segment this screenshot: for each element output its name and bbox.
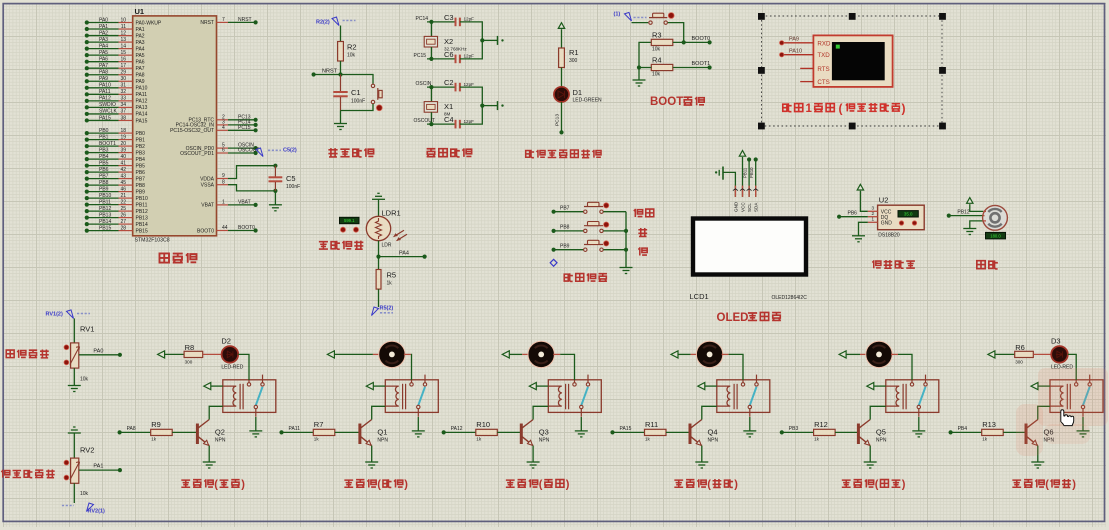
wire SDA pin OLED — [754, 157, 758, 161]
svg-text:PA10: PA10 — [789, 49, 802, 55]
svg-text:PB5: PB5 — [136, 163, 146, 169]
power arrow (left) motor row 4 — [671, 351, 678, 358]
svg-text:PA11: PA11 — [289, 426, 301, 432]
svg-text:33: 33 — [120, 96, 126, 102]
svg-text:U2: U2 — [879, 196, 889, 205]
wire net PB9 — [552, 248, 556, 252]
svg-text:OLED: OLED — [717, 312, 749, 324]
svg-text:PA2: PA2 — [99, 30, 108, 36]
push button PB7 — [584, 210, 587, 213]
svg-text:PA9: PA9 — [99, 76, 108, 82]
svg-text:10k: 10k — [652, 72, 661, 78]
wire net PA11 to R7 — [282, 431, 314, 433]
svg-text:PA5: PA5 — [99, 50, 108, 56]
wire D3 to relay pin — [1068, 354, 1076, 380]
svg-text:LDR: LDR — [382, 243, 392, 249]
svg-text:PB2: PB2 — [136, 144, 146, 150]
wire motor to relay pin 2 — [404, 353, 411, 355]
LCD1 OLED module body — [693, 219, 806, 275]
svg-text:RV1: RV1 — [80, 325, 94, 334]
svg-text:PB11: PB11 — [136, 202, 148, 208]
node BOOT0 junction — [682, 40, 686, 44]
wire net PA3 to U1 pin 13 — [87, 41, 119, 43]
wire button to BOOT0 node — [668, 23, 684, 43]
transistor Q1 NPN — [358, 424, 361, 445]
relay component unit 2 — [385, 380, 438, 413]
svg-text:R10: R10 — [476, 420, 490, 429]
resistor R13 1k — [982, 429, 1004, 435]
relay component unit 4 — [717, 380, 770, 413]
svg-text:R5: R5 — [387, 271, 397, 280]
power arrow servo — [967, 198, 973, 204]
wire C3 to right rail — [460, 22, 482, 41]
svg-text:Q5: Q5 — [876, 428, 886, 437]
wire left rail to R3 — [639, 42, 651, 67]
svg-text:PB11: PB11 — [743, 167, 748, 178]
wire servo VCC — [970, 204, 984, 211]
svg-text:OSCOUT_PD1: OSCOUT_PD1 — [180, 151, 214, 157]
wire net PA8 to U1 pin 29 — [87, 74, 119, 76]
svg-text:(: ( — [1045, 479, 1049, 491]
svg-text:LCD1: LCD1 — [690, 292, 709, 301]
svg-text:PB11: PB11 — [99, 199, 111, 205]
svg-text:R8: R8 — [185, 343, 195, 352]
svg-text:RV1(2): RV1(2) — [46, 312, 63, 318]
svg-text:U1: U1 — [135, 7, 145, 16]
svg-text:NPN: NPN — [876, 438, 887, 444]
servo angle display — [986, 232, 1006, 239]
capacitor C5 100nF — [274, 166, 276, 177]
svg-text:NRST: NRST — [238, 17, 252, 23]
capacitor C2 12pF — [455, 83, 457, 92]
power arrow (left) at relay 5 — [867, 383, 874, 390]
wire RV1 bottom to ground — [73, 368, 75, 385]
node PA15 wire start — [610, 430, 614, 434]
motor load unit 2 — [379, 341, 405, 367]
wire Q4 emitter to ground — [701, 446, 703, 462]
svg-text:25: 25 — [120, 206, 126, 212]
svg-text:SCL: SCL — [747, 203, 752, 212]
wire net PA8 to R9 — [120, 431, 151, 433]
svg-text:PA9: PA9 — [789, 37, 799, 43]
svg-text:VSSA: VSSA — [201, 183, 215, 189]
push button BOOT (horizontal) — [649, 21, 652, 24]
wire rail to ground stub — [482, 39, 497, 41]
node PA4 junction — [376, 255, 380, 259]
resistor R8 300 — [184, 351, 203, 357]
relay component unit 5 — [886, 380, 939, 413]
svg-text:GND: GND — [881, 221, 893, 227]
caption relay unit 3 — [506, 479, 538, 487]
wire relay switch to ground — [580, 417, 582, 431]
svg-text:30: 30 — [120, 76, 126, 82]
svg-text:PB6: PB6 — [136, 170, 146, 176]
brightness control display 599.1 — [340, 217, 360, 223]
svg-text:PA12: PA12 — [451, 426, 463, 432]
wire net PC15 from U1 pin 4 — [217, 129, 229, 131]
svg-text:SDA: SDA — [754, 202, 759, 212]
ground DS18B20 — [852, 235, 865, 237]
crystal X2 32.768KHz — [430, 22, 432, 37]
node OSCIN junction — [429, 85, 433, 89]
svg-text:PA6: PA6 — [136, 59, 145, 65]
wire net SWDIO to U1 pin 34 — [87, 106, 119, 108]
wire relay switch to ground — [417, 417, 419, 431]
wire motor to relay pin 3 — [553, 353, 560, 355]
wire NRST horizontal — [314, 75, 373, 84]
svg-text:PC15: PC15 — [414, 53, 427, 59]
node PA11 wire start — [279, 430, 283, 434]
wire VCC DS18B20 — [860, 191, 867, 212]
svg-text:8: 8 — [222, 179, 225, 185]
svg-text:PB7: PB7 — [99, 173, 109, 179]
resistor R3 10k — [651, 39, 673, 45]
wire net PC14 from U1 pin 3 — [217, 124, 229, 126]
svg-text:PB13: PB13 — [136, 215, 148, 221]
wire RV2 top — [73, 433, 75, 458]
ground (side) OLED GND — [722, 167, 724, 180]
svg-text:PC13: PC13 — [555, 114, 561, 126]
virtual terminal screen — [832, 42, 885, 80]
svg-text:PA12: PA12 — [99, 96, 111, 102]
svg-text:7: 7 — [222, 17, 225, 23]
hover highlight on relay unit 6 — [1038, 368, 1108, 426]
node NRST junction — [338, 72, 342, 76]
svg-text:BOOT0: BOOT0 — [692, 36, 711, 42]
wire gnd to LDR1 — [378, 199, 380, 216]
wire net PB7 to U1 pin 43 — [87, 178, 119, 180]
wire R5 to off-page — [378, 289, 380, 307]
svg-text:): ) — [1072, 479, 1076, 491]
wire Q3 emitter to ground — [532, 446, 534, 462]
terminal cursor green block — [836, 45, 840, 49]
svg-text:NPN: NPN — [708, 438, 719, 444]
ground (inverted) above LDR1 — [372, 198, 385, 200]
svg-text:4: 4 — [222, 125, 225, 131]
svg-text:C5: C5 — [286, 174, 296, 183]
wire Q5 emitter to ground — [869, 446, 871, 462]
svg-text:R6: R6 — [1015, 343, 1025, 352]
wire net PA0 to U1 pin 10 — [87, 22, 119, 24]
wire net PB0 to U1 pin 18 — [87, 132, 119, 134]
svg-text:1k: 1k — [151, 437, 157, 442]
wire RV2 wiper to PA1 — [79, 469, 120, 471]
svg-text:PA15: PA15 — [620, 426, 632, 432]
svg-text:PA11: PA11 — [99, 89, 111, 95]
svg-text:2: 2 — [872, 211, 875, 216]
resistor R9 1k — [151, 429, 173, 435]
wire net PB11 to U1 pin 22 — [87, 204, 119, 206]
svg-text:PA4: PA4 — [399, 250, 409, 256]
wire R11 to Q4 base — [666, 431, 690, 433]
wire Q1 emitter to ground — [371, 446, 373, 462]
svg-text:PA4: PA4 — [136, 46, 145, 52]
svg-text:Q4: Q4 — [708, 428, 718, 437]
svg-text:31: 31 — [120, 83, 126, 89]
transistor Q2 NPN — [196, 424, 199, 445]
svg-text:300: 300 — [1015, 360, 1023, 365]
U1 pin 9 VDDA — [217, 178, 229, 180]
svg-text:PC14: PC14 — [416, 16, 429, 22]
relay component unit 6 — [1050, 380, 1103, 413]
wire net PA4 to U1 pin 14 — [87, 48, 119, 50]
svg-text:PA4: PA4 — [99, 43, 108, 49]
capacitor C1 100nF — [340, 75, 342, 92]
power arrow (left) at relay 4 — [698, 383, 705, 390]
wire net PA15 to U1 pin 38 — [87, 119, 119, 121]
svg-text:OSCOUT: OSCOUT — [238, 148, 259, 154]
svg-text:300: 300 — [185, 360, 193, 365]
svg-text:): ) — [241, 479, 245, 491]
wire RV2 bottom to off-page — [73, 483, 75, 503]
wire net PB8 — [552, 229, 556, 233]
svg-text:(: ( — [377, 479, 381, 491]
wire net PC15 — [427, 58, 456, 60]
wire arrow to motor 4 — [678, 353, 691, 355]
wire Q1 collector to relay coil — [372, 406, 386, 419]
svg-text:NPN: NPN — [377, 438, 388, 444]
wire net PA12 to U1 pin 33 — [87, 100, 119, 102]
svg-text:43: 43 — [120, 173, 126, 179]
svg-text:PA5: PA5 — [136, 53, 145, 59]
svg-text:PB12: PB12 — [99, 206, 111, 212]
wire button bottom to C1 bottom — [341, 104, 374, 111]
caption relay unit 1 — [181, 479, 213, 487]
svg-text:3: 3 — [872, 206, 875, 211]
wire net BOOT0 from U1 pin 44 — [217, 230, 229, 232]
wire VDDA to C5 top rail — [228, 166, 275, 179]
wire net PA6 to U1 pin 16 — [87, 61, 119, 63]
op-chip U1 STM32F103C8 body — [133, 16, 217, 236]
resistor R5 1k — [376, 270, 381, 290]
svg-text:12pF: 12pF — [464, 17, 475, 22]
svg-text:6: 6 — [222, 148, 225, 154]
caption turbidity adjust hun-zhuo-du-tiao-jie — [1, 470, 54, 478]
resistor R10 1k — [476, 429, 498, 435]
power arrow (left) at relay 3 — [529, 383, 536, 390]
LED D3 LED-RED — [1051, 346, 1068, 363]
svg-text:TXD: TXD — [817, 52, 830, 59]
svg-text:45: 45 — [120, 180, 126, 186]
ground servo — [963, 228, 976, 230]
common rail buttons — [625, 212, 627, 268]
svg-text:PA12: PA12 — [136, 99, 148, 105]
svg-text:PB9: PB9 — [136, 189, 146, 195]
svg-text:PB7: PB7 — [560, 205, 570, 211]
svg-text:PB7: PB7 — [136, 176, 146, 182]
LED D2 LED-RED — [222, 346, 239, 363]
wire net PB8 to U1 pin 45 — [87, 184, 119, 186]
svg-text:32: 32 — [120, 89, 126, 95]
light arrows at LDR1 — [394, 230, 408, 241]
svg-text:PB4: PB4 — [99, 154, 109, 160]
svg-text:PB9: PB9 — [99, 186, 109, 192]
motor load unit 5 — [866, 341, 892, 367]
wire R4 to BOOT1 end — [673, 67, 710, 69]
wire net PB1 to U1 pin 19 — [87, 139, 119, 141]
crystal X1 8M — [430, 87, 432, 102]
svg-text:R4: R4 — [652, 55, 662, 64]
wire relay switch to ground — [1082, 417, 1084, 431]
svg-text:PA8: PA8 — [127, 426, 136, 432]
wire to ground BOOT — [638, 68, 640, 81]
wire net OSCIN from U1 pin 5 — [217, 147, 229, 149]
wire net PA2 to U1 pin 12 — [87, 35, 119, 37]
svg-text:12pF: 12pF — [464, 54, 475, 59]
resistor R6 300 — [1015, 351, 1034, 357]
ground relay switch 5 — [912, 430, 925, 432]
caption program run indicator — [526, 150, 601, 158]
svg-text:RV2: RV2 — [80, 446, 94, 455]
svg-text:DS18B20: DS18B20 — [878, 233, 900, 239]
svg-text:CTS: CTS — [817, 79, 829, 86]
resistor R7 1k — [313, 429, 335, 435]
wire Q6 emitter to ground — [1037, 446, 1039, 462]
caption relay unit 6 — [1012, 479, 1044, 487]
wire R7 to Q1 base — [335, 431, 360, 433]
svg-text:GND: GND — [733, 201, 738, 212]
svg-text:20: 20 — [120, 141, 126, 147]
caption temperature module ce-wen-mo-kuai — [872, 260, 915, 268]
svg-text:PB9: PB9 — [560, 243, 570, 249]
svg-text:NRST: NRST — [322, 69, 338, 75]
ground Q5 emitter — [864, 461, 877, 463]
ground relay switch 4 — [743, 430, 756, 432]
svg-text:PB3: PB3 — [789, 426, 799, 432]
svg-text:PB14: PB14 — [99, 219, 111, 225]
svg-text:PA1: PA1 — [136, 27, 145, 33]
svg-text:C3: C3 — [444, 13, 454, 22]
wire net PC14 — [427, 21, 456, 23]
svg-text:BOOT0: BOOT0 — [197, 228, 214, 234]
ground relay switch 6 — [1077, 430, 1090, 432]
svg-text:R3: R3 — [652, 30, 662, 39]
svg-text:R13: R13 — [982, 420, 996, 429]
svg-text:BOOT1: BOOT1 — [99, 141, 116, 147]
svg-text:PB14: PB14 — [136, 222, 148, 228]
svg-text:22: 22 — [120, 199, 126, 205]
wire net PB13 to U1 pin 26 — [87, 217, 119, 219]
resistor R2 10k — [338, 42, 344, 62]
ground reset circuit — [334, 123, 347, 125]
ground below C5 — [269, 204, 282, 206]
svg-text:D1: D1 — [573, 88, 583, 97]
node crystal rail junction — [480, 104, 484, 108]
svg-text:NRST: NRST — [200, 20, 214, 26]
caption jia (plus) — [638, 228, 647, 237]
svg-text:46: 46 — [120, 186, 126, 192]
svg-text:1: 1 — [806, 103, 813, 115]
wire net PB9 to U1 pin 46 — [87, 191, 119, 193]
wire C6 to right rail — [460, 40, 482, 59]
power arrow OLED VCC — [739, 151, 745, 157]
wire to ground reset — [340, 111, 342, 124]
svg-text:40: 40 — [120, 154, 126, 160]
node VDDA rail junction — [273, 164, 277, 168]
wire Q4 collector to relay coil — [702, 406, 717, 419]
wire arrow to motor 2 — [334, 353, 373, 355]
wire net PB5 to U1 pin 41 — [87, 165, 119, 167]
svg-text:29: 29 — [120, 70, 126, 76]
svg-text:PB12: PB12 — [136, 209, 148, 215]
svg-text:VDDA: VDDA — [200, 176, 215, 182]
svg-text:R2: R2 — [347, 43, 357, 52]
svg-text:10k: 10k — [652, 47, 661, 53]
caption she-zhi (set) — [634, 209, 654, 217]
svg-text:D3: D3 — [1051, 337, 1061, 346]
svg-text:NPN: NPN — [215, 438, 226, 444]
svg-text:17: 17 — [120, 63, 126, 69]
svg-text:R7: R7 — [314, 420, 324, 429]
caption relay unit 4 — [674, 479, 706, 487]
svg-text:(: ( — [875, 479, 879, 491]
wire Q5 collector to relay coil — [870, 406, 886, 419]
svg-text:12: 12 — [120, 30, 126, 36]
ground Q1 emitter — [365, 461, 378, 463]
svg-text:PA9: PA9 — [136, 79, 145, 85]
svg-text:1k: 1k — [476, 437, 482, 442]
svg-text:(1): (1) — [614, 12, 621, 18]
wire net PB6 to U1 pin 42 — [87, 171, 119, 173]
svg-text:BOOT0: BOOT0 — [238, 225, 255, 231]
svg-text:PC15-OSC32_OUT: PC15-OSC32_OUT — [170, 128, 214, 134]
svg-text:R9: R9 — [151, 420, 161, 429]
svg-text:PB3: PB3 — [99, 147, 109, 153]
svg-text:1: 1 — [872, 217, 875, 222]
wire net OSCOUT from U1 pin 6 — [217, 152, 229, 154]
wire D2 to relay pin — [238, 354, 249, 380]
caption jian (minus) — [638, 247, 647, 255]
wire net PB10 to U1 pin 21 — [87, 197, 119, 199]
ground BOOT circuit — [633, 79, 646, 81]
ground relay switch 3 — [575, 430, 588, 432]
svg-text:PB0: PB0 — [99, 128, 109, 134]
svg-text:BOOT: BOOT — [650, 96, 683, 108]
svg-text:PA7: PA7 — [136, 66, 145, 72]
svg-text:15: 15 — [120, 50, 126, 56]
svg-text:18: 18 — [120, 128, 126, 134]
ground (inverted) above RV2 — [68, 432, 81, 434]
wire Q2 emitter to ground — [208, 446, 210, 462]
push button PB8 — [584, 229, 587, 232]
wire D1 to PC13 end — [561, 102, 563, 132]
caption independent keys du-li-an-jian — [564, 273, 607, 281]
svg-text:SWCLK: SWCLK — [99, 109, 117, 115]
wire C4 to right rail — [460, 106, 482, 125]
wire R3 to BOOT0 end — [673, 41, 710, 43]
svg-text:PB13: PB13 — [99, 212, 111, 218]
svg-text:C2: C2 — [444, 78, 454, 87]
svg-text:PA14: PA14 — [136, 112, 148, 118]
svg-text:PC15: PC15 — [238, 125, 251, 131]
svg-text:R5(2): R5(2) — [380, 306, 394, 312]
caption crystal circuit jing-zhen-dian-lu — [427, 148, 472, 157]
svg-text:PA2: PA2 — [136, 33, 145, 39]
caption reset circuit fu-wei-dian-lu — [328, 148, 373, 157]
wire Q3 collector to relay coil — [533, 406, 548, 419]
svg-text:): ) — [566, 479, 570, 491]
svg-text:14: 14 — [120, 43, 126, 49]
wire relay switch to ground — [255, 417, 257, 431]
svg-text:PB4: PB4 — [958, 426, 968, 432]
transistor Q5 NPN — [857, 424, 860, 445]
power arrow (left) at relay 2 — [366, 383, 373, 390]
svg-text:100nF: 100nF — [286, 184, 300, 190]
push button reset (vertical) — [371, 84, 374, 87]
svg-text:38: 38 — [120, 115, 126, 121]
caption main chip zhu-xin-pian — [160, 253, 197, 263]
node PC14 junction — [429, 20, 433, 24]
